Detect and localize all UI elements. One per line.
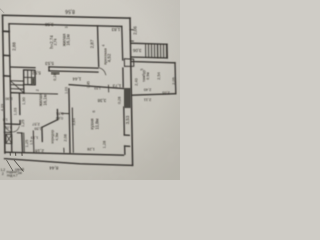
hall bottom wall <box>69 85 124 89</box>
crease mark top left <box>0 9 4 14</box>
svg-text:6: 6 <box>92 111 96 113</box>
door tick on hall wall <box>108 85 110 92</box>
wall tick b1 a <box>15 153 17 156</box>
svg-text:2,05: 2,05 <box>162 91 169 95</box>
svg-text:2,06: 2,06 <box>132 26 137 35</box>
window kitchen cap top <box>124 134 129 136</box>
svg-text:1м: 1м <box>18 171 23 175</box>
corridor east wall line 2 <box>72 108 73 152</box>
paper blotches <box>0 0 180 180</box>
boiler box X line 1 <box>6 134 12 143</box>
cellar stair tread 1 <box>11 80 24 82</box>
svg-text:0,45: 0,45 <box>86 81 90 88</box>
wire outer top wall <box>3 15 131 18</box>
svg-text:под к.7: под к.7 <box>7 174 18 178</box>
svg-text:16,1м: 16,1м <box>66 34 71 45</box>
door arc right <box>13 126 19 131</box>
svg-text:3,64: 3,64 <box>72 118 76 125</box>
closet right wall <box>23 85 25 93</box>
annex bottom wall <box>132 94 176 96</box>
utility closet top wall <box>10 66 35 69</box>
wc east wall line 1 <box>21 133 24 152</box>
window W1 bottom cap left wall <box>4 75 11 77</box>
svg-text:4: 4 <box>102 45 106 47</box>
door arc left <box>5 126 12 132</box>
wire inner right wall bottom <box>124 146 126 154</box>
boiler box outline <box>6 134 12 143</box>
svg-text:1,03: 1,03 <box>13 108 17 115</box>
stair tread e (dark) <box>157 44 159 58</box>
kitchen door frame tick <box>63 148 65 152</box>
svg-text:3,53: 3,53 <box>125 115 130 124</box>
leader line 2 bottom left <box>14 160 24 172</box>
bath east wall upper <box>18 94 21 115</box>
cellar stair tread 4 / room 2 top wall left <box>11 92 24 94</box>
stair tread d <box>154 44 156 58</box>
window W1 cap top left wall <box>3 30 9 32</box>
corridor 7 diagonal wall <box>42 120 58 128</box>
stove firebox dark fill <box>32 78 35 85</box>
wc north wall left <box>4 131 11 133</box>
wire inner right wall mid <box>122 68 124 87</box>
svg-text:3,38: 3,38 <box>97 98 106 103</box>
stove outline <box>24 70 36 85</box>
paper background <box>0 0 180 180</box>
corridor east wall line 1 <box>69 89 70 153</box>
room 3 bottom wall left cap <box>48 67 50 71</box>
svg-text:1,44: 1,44 <box>72 76 81 81</box>
svg-text:2: 2 <box>2 172 4 176</box>
svg-text:5,53: 5,53 <box>45 61 54 66</box>
svg-text:1,19: 1,19 <box>31 136 38 140</box>
svg-text:0,91: 0,91 <box>56 111 63 115</box>
annex stairs top rail <box>131 43 167 44</box>
annex mid wall <box>131 62 175 63</box>
svg-text:3,58: 3,58 <box>44 22 53 27</box>
svg-text:2,40: 2,40 <box>144 88 151 92</box>
svg-text:0,89: 0,89 <box>56 116 63 120</box>
room 3 bottom wall upper line <box>49 67 98 68</box>
room 2 top wall <box>24 92 58 95</box>
svg-text:4,9м: 4,9м <box>54 132 59 140</box>
svg-text:0,9м: 0,9м <box>146 72 150 80</box>
window caps right wall room 4 <box>130 29 133 31</box>
corridor 7 west wall <box>41 127 43 141</box>
svg-text:0,28: 0,28 <box>53 73 57 80</box>
bath east wall lower <box>19 121 21 125</box>
svg-text:11,8м: 11,8м <box>95 118 100 129</box>
svg-text:4,52: 4,52 <box>106 53 111 62</box>
svg-text:1,83: 1,83 <box>111 27 120 32</box>
stair tread b <box>148 44 150 58</box>
paper grain <box>0 0 180 180</box>
stairs smudge fill <box>145 44 167 58</box>
wc east wall line 2 <box>23 133 26 152</box>
svg-text:1,25: 1,25 <box>21 120 25 127</box>
svg-text:1,6: 1,6 <box>3 117 8 121</box>
chimney dark block in right wall <box>124 88 131 108</box>
svg-text:0,28: 0,28 <box>118 97 122 104</box>
svg-text:16,1м: 16,1м <box>42 94 47 105</box>
bath south wall <box>4 123 19 126</box>
annex stairs right end <box>166 44 168 58</box>
wall tick b1 c <box>21 152 23 156</box>
cellar stair tread 3 <box>11 88 24 90</box>
wire outer left wall <box>3 15 5 153</box>
svg-text:2,08: 2,08 <box>64 134 68 141</box>
stair tread h <box>165 44 167 58</box>
wire outer right wall <box>130 18 133 165</box>
small room east wall <box>32 131 35 153</box>
svg-text:4,19: 4,19 <box>0 104 4 111</box>
svg-text:2,74: 2,74 <box>54 39 58 46</box>
stair tread g <box>163 44 165 58</box>
wc north wall right <box>17 132 22 134</box>
svg-text:2: 2 <box>36 89 40 91</box>
door arc room 4 <box>99 68 106 75</box>
svg-text:1,01: 1,01 <box>5 126 12 130</box>
boiler box X line 2 <box>6 134 12 143</box>
wire inner bottom wall <box>5 152 124 155</box>
svg-text:1,73: 1,73 <box>112 84 121 89</box>
svg-text:5,52: 5,52 <box>32 71 41 76</box>
svg-text:2,05: 2,05 <box>172 77 176 84</box>
vignette <box>0 0 180 180</box>
room 3 bottom wall lower line <box>49 71 98 72</box>
annex right wall <box>174 63 177 94</box>
svg-text:2,54: 2,54 <box>157 72 161 79</box>
wire inner right wall lower <box>123 107 126 135</box>
cellar stair tread 2 <box>11 84 24 86</box>
svg-text:1,90: 1,90 <box>5 97 12 101</box>
stair tread f <box>160 44 162 58</box>
svg-text:1,90: 1,90 <box>22 97 26 104</box>
corridor door sill tick <box>61 112 69 114</box>
svg-text:8,44: 8,44 <box>49 165 58 170</box>
wire inner right wall upper <box>121 26 124 60</box>
svg-text:1,28: 1,28 <box>87 147 94 151</box>
wire inner top wall <box>9 24 122 27</box>
svg-text:8,56: 8,56 <box>65 8 75 14</box>
cellar stair diagonal <box>11 81 24 93</box>
svg-text:1,03: 1,03 <box>65 87 69 94</box>
pier under room 3 wall <box>51 72 60 75</box>
svg-text:1,28: 1,28 <box>102 141 106 148</box>
stair tread a <box>145 44 147 58</box>
svg-text:2,18: 2,18 <box>35 148 44 153</box>
svg-text:2,57: 2,57 <box>32 122 39 126</box>
wire inner left wall <box>9 24 12 152</box>
window kitchen cap bottom <box>125 145 130 147</box>
stove divider 2 <box>30 70 32 85</box>
svg-text:2,11: 2,11 <box>143 98 151 103</box>
annex stairs bottom rail <box>131 57 167 58</box>
stair tread c <box>151 44 153 58</box>
svg-text:1,5: 1,5 <box>30 140 34 145</box>
svg-text:1,25: 1,25 <box>25 140 29 147</box>
wall tick b1 b <box>9 152 11 156</box>
svg-text:3,06: 3,06 <box>132 48 141 53</box>
wall between rooms 3 and 4 <box>98 26 99 67</box>
stove mid line <box>24 76 35 78</box>
wire second bottom wall line <box>5 159 133 166</box>
corridor 7 vertical <box>56 110 58 120</box>
svg-text:2,87: 2,87 <box>90 39 95 48</box>
window W1 mid cap left wall <box>3 54 10 56</box>
door leaf box at annex entrance <box>124 59 134 67</box>
svg-text:3: 3 <box>64 26 68 28</box>
leader line 1 bottom left <box>7 160 14 171</box>
svg-text:1,53: 1,53 <box>94 86 101 90</box>
stove divider 1 <box>27 70 29 85</box>
svg-text:2,40: 2,40 <box>135 78 139 85</box>
svg-text:2,88: 2,88 <box>12 42 17 51</box>
